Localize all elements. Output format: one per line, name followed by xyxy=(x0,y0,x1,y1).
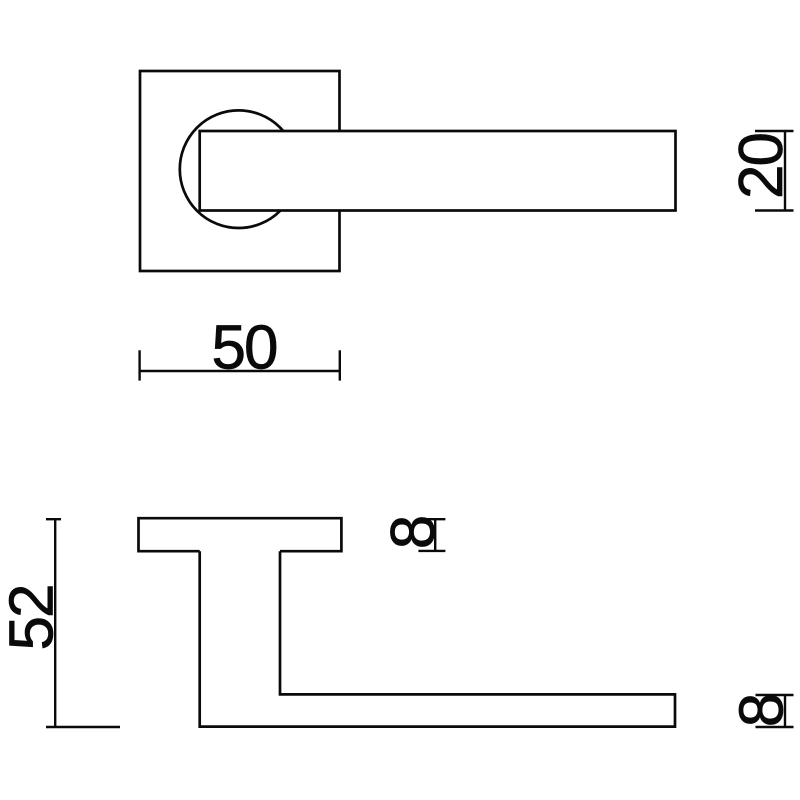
svg-text:20: 20 xyxy=(727,134,796,199)
svg-text:8: 8 xyxy=(728,695,797,727)
svg-text:50: 50 xyxy=(212,314,277,383)
svg-text:8: 8 xyxy=(379,517,448,549)
svg-text:52: 52 xyxy=(0,586,67,651)
